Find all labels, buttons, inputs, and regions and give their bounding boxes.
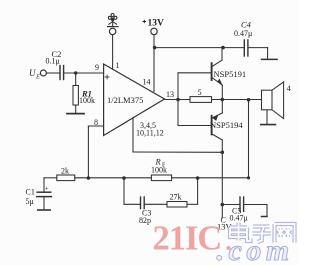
svg-text:NSP5191: NSP5191 [214,69,247,79]
svg-text:8: 8 [94,118,98,127]
svg-text:21IC: 21IC [153,220,222,258]
svg-text:82p: 82p [139,216,151,225]
svg-text:100k: 100k [79,96,95,105]
svg-text:U: U [29,68,36,78]
svg-text:13V: 13V [148,19,165,29]
svg-text:2k: 2k [61,167,69,176]
svg-text:1: 1 [116,61,120,70]
svg-text:C4: C4 [241,20,252,30]
svg-text:.com: .com [217,234,294,265]
svg-text:1/2LM375: 1/2LM375 [107,95,143,105]
svg-text:10,11,12: 10,11,12 [136,129,164,138]
svg-text:NSP5194: NSP5194 [210,120,243,130]
svg-text:100k: 100k [151,166,167,175]
svg-text:13: 13 [166,90,174,99]
svg-text:5μ: 5μ [26,197,34,206]
svg-text:0.47μ: 0.47μ [230,214,248,223]
svg-text:5: 5 [198,88,202,97]
svg-text:9: 9 [95,63,99,72]
svg-text:E: E [35,74,40,81]
svg-text:+: + [45,185,49,193]
svg-text:14: 14 [143,78,151,87]
svg-text:C1: C1 [26,188,35,197]
svg-text:0.1μ: 0.1μ [46,57,60,66]
svg-text:0.47μ: 0.47μ [234,29,252,38]
svg-text:27k: 27k [170,193,182,202]
